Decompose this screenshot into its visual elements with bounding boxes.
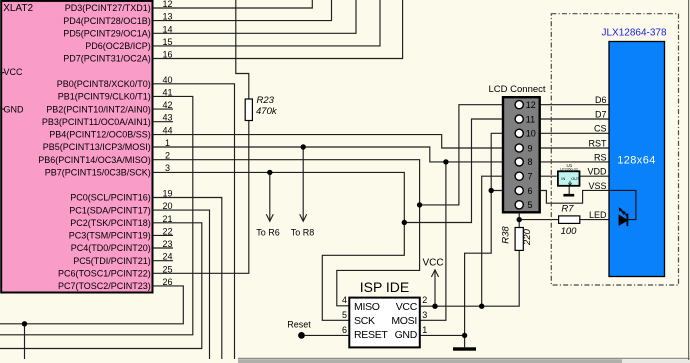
wire net PC1 pin20 down	[153, 210, 210, 359]
svg-text:VCC: VCC	[396, 301, 418, 313]
wire LCD connector pin9 to display RST	[540, 147, 609, 149]
junction node MISO branch	[417, 202, 422, 207]
svg-text:6: 6	[528, 186, 533, 196]
resistor R23	[245, 99, 252, 121]
wire SCK branch to LCD pin11	[404, 119, 515, 223]
wire net PD4 pin13 up	[153, 0, 332, 21]
To R8 arrowhead	[300, 214, 307, 221]
wire net PB6/MISO pin2 to ISP MISO	[153, 160, 420, 306]
svg-text:IN: IN	[561, 177, 565, 181]
svg-text:PC4(TD0/PCINT20): PC4(TD0/PCINT20)	[71, 243, 151, 253]
wire net VCC: ISP VCC row to R38	[420, 250, 519, 306]
svg-text:VSS: VSS	[588, 181, 606, 191]
sheet edge grey line bottom	[238, 357, 690, 359]
stub pin42	[153, 108, 174, 110]
svg-text:MISO: MISO	[354, 301, 380, 313]
svg-text:PB5(PCINT13/ICP3/MOSI): PB5(PCINT13/ICP3/MOSI)	[43, 142, 151, 152]
chip pin numbers	[162, 0, 172, 287]
svg-text:To R8: To R8	[291, 228, 315, 238]
svg-text:PB6(PCINT14/OC3A/MISO): PB6(PCINT14/OC3A/MISO)	[38, 155, 151, 165]
wire net PB5/MOSI pin1 to LCD pin8	[153, 147, 516, 162]
ground symbol below U1	[563, 194, 574, 197]
svg-text:PB7(PCINT15/0C3B/SCK): PB7(PCINT15/0C3B/SCK)	[45, 167, 151, 177]
U1 internal gnd mark	[568, 183, 572, 185]
wire LCD connector pin11 to display D7	[540, 118, 609, 120]
wire VCC branch to LCD pin7	[482, 176, 515, 306]
svg-text:RST: RST	[589, 138, 608, 148]
junction node GND row	[462, 333, 467, 338]
svg-text:D7: D7	[595, 109, 607, 119]
wire LCD connector pin10 to display CS	[540, 132, 609, 134]
wire GND branch to LCD pin6	[491, 190, 515, 192]
svg-text:PC5(TDI/PCINT21): PC5(TDI/PCINT21)	[73, 256, 151, 266]
wire net PC0 pin19 down	[153, 198, 222, 360]
wire SCK branch to R6 arrow	[269, 172, 271, 220]
svg-text:RESET: RESET	[354, 329, 388, 341]
svg-text:100: 100	[561, 226, 578, 237]
stub pin22	[153, 234, 174, 236]
svg-text:Reset: Reset	[287, 320, 311, 330]
svg-text:PD5(PCINT29/OC1A): PD5(PCINT29/OC1A)	[63, 29, 151, 39]
sheet right edge line	[688, 0, 690, 360]
svg-text:6: 6	[342, 325, 347, 335]
svg-text:MOSI: MOSI	[391, 315, 417, 327]
LED D? symbol	[619, 207, 629, 226]
svg-text:ISP IDE: ISP IDE	[360, 279, 410, 295]
connector pin hole 10	[515, 129, 523, 137]
svg-text:PC2(TSK/PCINT18): PC2(TSK/PCINT18)	[70, 218, 151, 228]
svg-text:220: 220	[522, 228, 533, 246]
svg-text:To R6: To R6	[256, 228, 280, 238]
resistor R38	[515, 228, 523, 251]
connector pin hole 8	[515, 158, 523, 166]
connector pin hole 6	[515, 186, 523, 194]
svg-text:3: 3	[165, 163, 170, 173]
svg-text:CS: CS	[594, 124, 607, 134]
connector pin numbers	[526, 100, 536, 210]
svg-text:11: 11	[526, 114, 535, 124]
svg-text:44: 44	[162, 125, 172, 135]
wire net PD7 pin16 up	[153, 0, 403, 59]
wire MOSI branch down to ISP MOSI	[420, 162, 446, 320]
svg-text:SCK: SCK	[354, 315, 375, 327]
VCC power arrow	[431, 270, 438, 277]
wire net PB1 pin41 down-left	[0, 96, 193, 334]
GND left tick	[0, 108, 5, 110]
svg-text:OUT: OUT	[571, 177, 580, 181]
wire net PC2 pin21 down-left	[0, 223, 202, 349]
junction node MOSI branch	[443, 159, 448, 164]
regulator U1	[558, 171, 580, 186]
ISP connector body	[349, 298, 420, 348]
connector pin hole 9	[515, 144, 523, 152]
wire net Reset to ISP RESET	[305, 334, 349, 336]
VCC left tick	[0, 72, 5, 74]
wire R38 top to node	[518, 220, 520, 228]
wire U1 GND down	[568, 186, 570, 194]
connector pin hole 11	[515, 115, 523, 123]
stub pin23	[153, 247, 174, 249]
svg-text:PC1(SDA/PCINT17): PC1(SDA/PCINT17)	[69, 205, 151, 215]
svg-text:128x64: 128x64	[617, 155, 656, 167]
wire net PB4/SS pin44 to LCD pin9	[153, 135, 516, 148]
junction node PC7 net	[22, 321, 27, 326]
junction node backlight	[517, 217, 522, 222]
wire U1 OUT to display VDD	[580, 175, 609, 177]
svg-text:PD4(PCINT28/OC1B): PD4(PCINT28/OC1B)	[63, 16, 151, 26]
junction node SCK branch	[402, 220, 407, 225]
To R6 arrowhead	[266, 214, 273, 221]
svg-text:LED: LED	[589, 210, 607, 220]
svg-text:PC0(SCL/PCINT16): PC0(SCL/PCINT16)	[70, 193, 151, 203]
resistor R7	[559, 216, 580, 224]
svg-text:VCC: VCC	[4, 67, 24, 77]
connector pin hole 12	[515, 101, 523, 109]
wire MOSI branch to R8 arrow	[302, 147, 304, 221]
svg-text:4: 4	[342, 295, 347, 305]
svg-text:PB2(PCINT10/INT2/AIN0): PB2(PCINT10/INT2/AIN0)	[46, 104, 151, 114]
scrollbar track	[622, 359, 690, 363]
connector J? LCD Connect body	[503, 97, 540, 212]
svg-text:3: 3	[422, 310, 427, 320]
junction node on PB7 row (To R6 branch)	[267, 170, 272, 175]
ISP pin labels right column	[391, 301, 417, 341]
svg-text:VCC: VCC	[422, 258, 443, 269]
svg-text:2: 2	[165, 151, 170, 161]
wire branch down at node x24.5	[24, 324, 26, 359]
svg-text:XLAT2: XLAT2	[3, 3, 33, 14]
svg-text:PB1(PCINT9/CLK0/T1): PB1(PCINT9/CLK0/T1)	[58, 92, 151, 102]
svg-text:LCD Connect: LCD Connect	[489, 84, 546, 95]
svg-text:PC6(TOSC1/PCINT22): PC6(TOSC1/PCINT22)	[58, 269, 151, 279]
svg-text:R38: R38	[501, 226, 512, 244]
svg-text:PC3(TSM/PCINT19): PC3(TSM/PCINT19)	[69, 231, 151, 241]
Reset terminal node	[298, 332, 305, 339]
connector pin hole 5	[515, 201, 523, 209]
wire net PD3 pin12 up	[153, 0, 313, 8]
wire net PD6 pin15 up	[153, 0, 381, 46]
microcontroller U? (XLAT2) body	[1, 1, 152, 293]
wire net PC7 pin26 down-left	[0, 286, 183, 324]
svg-text:GND: GND	[4, 105, 25, 115]
svg-text:470k: 470k	[256, 106, 278, 117]
wire MISO branch to LCD pin12	[420, 105, 515, 205]
svg-text:PC7(TOSC2/PCINT23): PC7(TOSC2/PCINT23)	[58, 281, 151, 291]
display module body 128x64	[609, 42, 665, 277]
svg-text:R23: R23	[257, 95, 275, 106]
svg-text:PD3(PCINT27/TXD1): PD3(PCINT27/TXD1)	[65, 3, 151, 13]
wire VSS segment over display	[609, 190, 636, 219]
ISP outside pin numbers	[342, 295, 427, 335]
wire LCD connector pin8 to display RS	[540, 161, 609, 163]
wire net PB0 pin40 down	[153, 84, 235, 359]
connector pin hole 7	[515, 172, 523, 180]
wire net PD5 pin14 up	[153, 0, 357, 33]
wire LCD connector pin12 to display D6	[540, 104, 609, 106]
wire net GND: ISP GND row to ground and LCD pin10	[420, 335, 465, 347]
svg-text:12: 12	[526, 100, 536, 110]
scrollbar thumb	[238, 359, 622, 363]
svg-text:PB0(PCINT8/XCK0/T0): PB0(PCINT8/XCK0/T0)	[57, 79, 151, 89]
chip pin name labels	[38, 3, 151, 291]
svg-text:5: 5	[528, 200, 533, 210]
svg-text:9: 9	[528, 143, 533, 153]
svg-text:PD6(OC2B/ICP): PD6(OC2B/ICP)	[85, 41, 151, 51]
svg-text:JLX12864-378: JLX12864-378	[601, 27, 666, 38]
display pin labels	[587, 95, 607, 220]
svg-text:VDD: VDD	[587, 167, 607, 177]
svg-text:10: 10	[526, 129, 536, 139]
wire node to R7	[519, 219, 558, 221]
wire LCD connector pin7 to U1 IN	[540, 175, 557, 177]
junction node VCC riser	[479, 304, 484, 309]
dashed module boundary box	[551, 14, 678, 285]
svg-text:R7: R7	[561, 203, 574, 214]
svg-text:2: 2	[422, 295, 427, 305]
wire net PB7/SCK pin3 to ISP SCK	[153, 172, 405, 320]
svg-text:GND: GND	[395, 329, 418, 341]
svg-text:8: 8	[528, 157, 533, 167]
wire R7 to LED anode	[580, 219, 618, 221]
junction node on PB5 row (To R8 branch)	[301, 144, 306, 149]
svg-text:D6: D6	[595, 95, 607, 105]
wire VCC arrow shaft	[434, 271, 436, 307]
svg-text:1: 1	[422, 325, 427, 335]
ISP pin labels left column	[354, 301, 388, 341]
stub pin24	[153, 260, 174, 262]
svg-text:RS: RS	[594, 152, 607, 162]
svg-text:PD7(PCINT31/OC2A): PD7(PCINT31/OC2A)	[63, 54, 151, 64]
svg-text:7: 7	[528, 172, 533, 182]
svg-text:LP2950-33: LP2950-33	[560, 168, 578, 172]
wire net VSS: connector pin6 loop to display VSS and LED cathode	[540, 190, 636, 219]
svg-text:5: 5	[342, 310, 347, 320]
svg-text:PB3(PCINT11/OC0A/AIN1): PB3(PCINT11/OC0A/AIN1)	[42, 117, 151, 127]
junction node VCC arrow	[432, 304, 437, 309]
ground symbol below ISP	[453, 347, 476, 350]
stub pin43	[153, 121, 174, 123]
wire R23 top up	[236, 0, 249, 99]
wire net PC6 pin25 to R23 bottom	[153, 121, 249, 274]
junction node GND/pin6	[489, 188, 494, 193]
wire node to connector bottom	[518, 212, 520, 219]
svg-text:PB4(PCINT12/OC0B/SS): PB4(PCINT12/OC0B/SS)	[49, 130, 151, 140]
